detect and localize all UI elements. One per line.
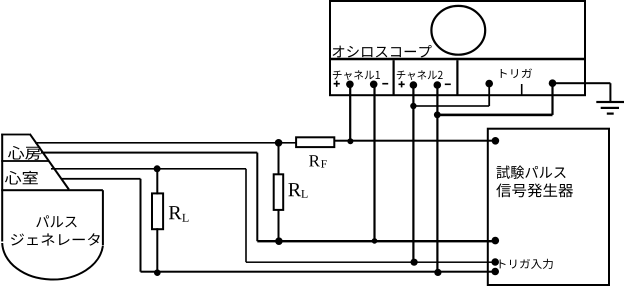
ch2 + terminal [410,81,418,89]
trigger-right wire down [551,83,553,115]
node junction W3 / RL-left top [154,165,161,172]
node junction RL-left bottom / wire A [154,269,161,276]
oscilloscope panel divider [330,58,585,61]
label 心室 [5,171,38,185]
W3 vertical down [245,169,247,262]
label トリガ [501,68,532,78]
label RL left [169,206,189,222]
pacemaker left edge [1,134,3,242]
trigger terminal right [549,79,557,87]
pulse generator right edge [102,190,104,245]
pulse generator top edge [1,189,103,191]
channel2/trigger divider [456,60,458,95]
trigger terminal left [485,80,493,88]
trigger panel tick mark [521,84,523,95]
resistor RF body [296,137,334,147]
ground [596,101,624,115]
ch1 - wire down [373,84,375,241]
resistor RL (left) body [152,193,163,229]
RL-left top lead [156,169,158,195]
oscilloscope CRT screen circle [431,6,485,55]
wire trig-right to ch2- (thick) [437,114,552,117]
RL-left bottom lead [156,228,158,273]
RL-mid bottom lead [278,209,280,241]
channel1/channel2 divider [393,60,395,95]
node junction ch1+ / RF wire [347,138,353,144]
ch2 + wire down [412,85,414,262]
node junction ch2- / trig wire [434,111,441,118]
wire A: W4 to generator return [141,271,496,273]
label RF [309,155,327,167]
label パルス [36,215,76,227]
test pulse signal generator box [488,129,609,285]
wire C: W2 to generator output [257,240,495,242]
generator output node [492,237,500,245]
ch1 - terminal [370,81,378,89]
wire trig-left to ch2+ [413,105,489,107]
ch1 minus sign [382,83,388,85]
generator trigger input node [491,258,499,266]
resistor RL (middle) body [274,174,284,210]
ch1 plus sign [334,81,340,87]
wire ventricle lead 2 (W4) [62,178,141,180]
label トリガ入力 [500,259,553,269]
label チャネル1 [333,70,380,80]
node junction RL-mid bottom / wire C [275,237,283,245]
wire ventricle lead (W3) [51,168,246,170]
ch2 plus sign [399,81,405,87]
generator return node [491,268,499,276]
ch2 - wire down [436,85,438,272]
label チャネル2 [397,70,443,80]
label ジェネレータ [11,233,100,245]
node junction W1 / RL-mid top [275,139,283,147]
wire B: W3 to trigger input [246,261,495,263]
node junction ch1- / wire C [372,238,378,244]
generator input node (top) [492,137,500,145]
pacemaker top edge [1,134,30,136]
oscilloscope label オシロスコープ [333,45,432,58]
node junction ch2- / wire A [434,269,441,276]
node junction ch2+ / wire B [411,259,418,266]
ch2 - terminal [434,81,442,89]
oscilloscope outer box [330,1,585,95]
label 試験パルス [497,166,566,179]
ch1 + terminal [346,81,354,89]
ch2 minus sign [445,84,451,86]
label RL middle [288,183,307,198]
RL-mid top lead [278,143,280,175]
ch1 + wire down [349,84,351,141]
wire trigger-right to ground [553,82,612,102]
trigger-left wire down [488,84,490,106]
atrium/ventricle divider [1,160,48,162]
label 心房 [8,146,41,160]
wire RF to generator top (ch1 hot) [334,140,495,142]
node junction ch2+ / trig wire [410,103,416,109]
W4 vertical down [140,179,142,272]
wire atrium lead 2 (W2) [41,152,257,154]
pacemaker diagonal edge [30,134,69,190]
pulse generator bottom arc [2,243,103,280]
W2 vertical down [256,153,258,242]
label 信号発生器 [496,183,573,197]
wire atrium lead to RF (W1) [35,142,296,144]
